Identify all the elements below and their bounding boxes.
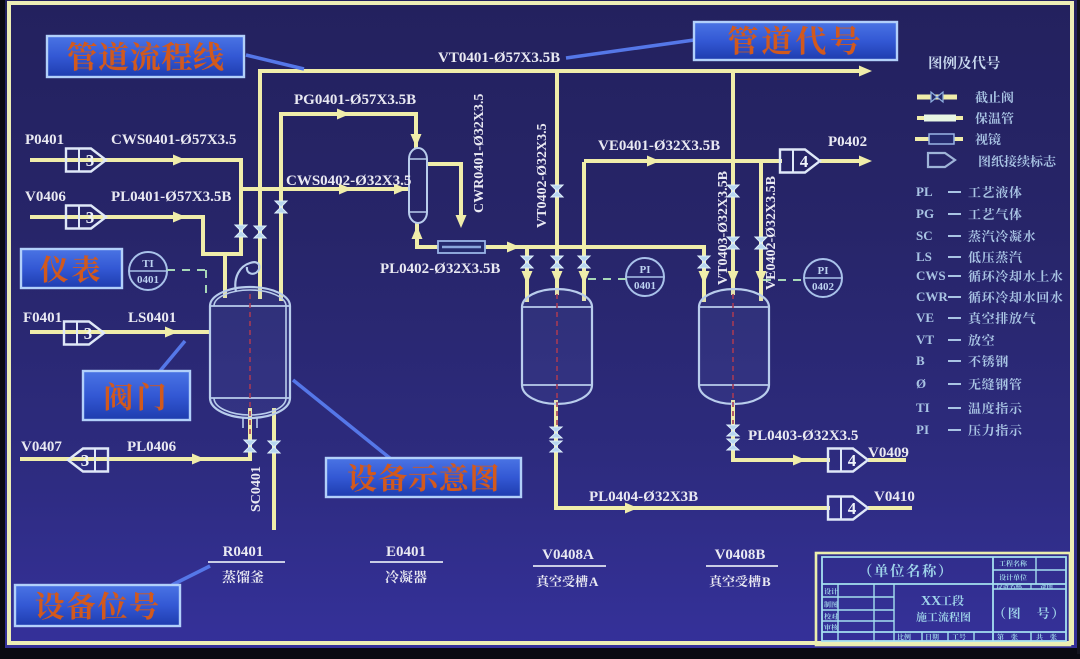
leader from label 2 (566, 40, 694, 58)
valve on PL0402 drop B (698, 256, 710, 262)
title block grid (816, 553, 1070, 645)
svg-text:3: 3 (86, 151, 95, 170)
title block 施工流程图 (916, 612, 970, 622)
pipe CWR0401 drop (459, 162, 463, 222)
leader to pipe from label 1 (246, 55, 304, 69)
svg-text:V0410: V0410 (874, 489, 915, 505)
legend label 图纸接续标志 (979, 155, 1055, 167)
instrument PI0401 bubble (626, 258, 664, 296)
name V0408B (710, 575, 761, 587)
connector flag V0409 (828, 449, 868, 472)
svg-text:PI: PI (916, 422, 929, 437)
pipe PL0406 horizontal (20, 457, 252, 461)
text VE0402 vertical (764, 176, 779, 290)
pipe PG0401 drop to E0401 (414, 114, 418, 148)
legend symbol 视镜 (915, 137, 963, 141)
underline R0401 (208, 561, 285, 563)
valve on VT0402 riser lower (551, 256, 563, 262)
svg-text:B: B (916, 353, 925, 368)
svg-text:V0407: V0407 (21, 439, 62, 455)
arrow PL0402 (507, 242, 520, 253)
svg-text:4: 4 (848, 451, 857, 470)
pipe VT0402 riser to V0408A (555, 71, 559, 295)
svg-text:PL0402-Ø32X3.5B: PL0402-Ø32X3.5B (380, 261, 500, 277)
condenser E0401 welds (409, 158, 427, 160)
arrow CWR0401 end (456, 215, 467, 228)
pipe R0401 neck stem (223, 254, 227, 298)
svg-text:PL0406: PL0406 (127, 439, 177, 455)
valve on VT0401 riser (254, 226, 266, 232)
pipe PL0402 horizontal (415, 245, 706, 249)
black bottom edge strip (0, 648, 1080, 654)
leader from label 阀门 (160, 341, 185, 371)
label box 设备示意图 (326, 458, 521, 497)
arrow into vessel at x=761 (756, 271, 767, 284)
svg-text:VT0403-Ø32X3.5B: VT0403-Ø32X3.5B (716, 171, 731, 285)
legend title 图例及代号 (929, 56, 1000, 70)
legend label 截止阀 (975, 91, 1013, 103)
instrument line TI0401 (167, 269, 206, 271)
svg-text:PG0401-Ø57X3.5B: PG0401-Ø57X3.5B (294, 92, 416, 108)
svg-text:VT0402-Ø32X3.5: VT0402-Ø32X3.5 (535, 123, 550, 228)
valve on V0408B outlet a (727, 425, 739, 431)
arrow into vessel at x=704 (699, 271, 710, 284)
svg-text:PG: PG (916, 206, 934, 221)
pipe PL0401 drop (201, 215, 205, 254)
vessel R0401 weld top (210, 305, 290, 307)
instrument line PI0401 (588, 278, 626, 280)
vessel R0401 weld bottom (210, 397, 290, 399)
svg-text:SC: SC (916, 228, 933, 243)
valve on SC0401 line (268, 441, 280, 447)
arrow into vessel at x=584 (579, 271, 590, 284)
text VT0403 vertical (716, 171, 731, 285)
svg-text:B: B (762, 574, 771, 589)
vessel V0408B centerline (732, 294, 734, 424)
instrument TI0401 bubble (129, 252, 167, 290)
svg-text:3: 3 (84, 324, 93, 343)
pipe PL0401 horizontal (30, 215, 205, 219)
text VT0402 vertical (535, 123, 550, 228)
svg-text:F0401: F0401 (23, 310, 62, 326)
svg-text:PI: PI (818, 265, 829, 277)
svg-text:3: 3 (81, 451, 90, 470)
svg-text:0402: 0402 (812, 281, 835, 293)
svg-text:4: 4 (848, 499, 857, 518)
leader from label 设备位号 (172, 566, 210, 585)
svg-text:CWS0401-Ø57X3.5: CWS0401-Ø57X3.5 (111, 132, 236, 148)
arrow CWS0402 into E0401 (394, 184, 407, 195)
pipe VE0401 after flag (820, 159, 866, 163)
connector flag F0401 (64, 322, 104, 345)
legend label 保温管 (975, 112, 1013, 124)
connector flag V0406 (66, 206, 106, 229)
arrow PG0401 (337, 109, 350, 120)
svg-text:VT: VT (916, 332, 934, 347)
connector flag V0407 (68, 449, 108, 472)
svg-text:PL0404-Ø32X3B: PL0404-Ø32X3B (589, 489, 698, 505)
title block 单位名称 (867, 564, 943, 578)
pipe VT0401 riser from R0401 (258, 69, 262, 299)
svg-text:PL0401-Ø57X3.5B: PL0401-Ø57X3.5B (111, 189, 231, 205)
vessel V0408A shell (522, 289, 592, 404)
legend symbol 图纸接续标志 (928, 153, 955, 167)
arrow CWS0402 (339, 184, 352, 195)
pipe CWS0402 horizontal (242, 187, 408, 191)
svg-text:R0401: R0401 (223, 544, 264, 560)
vessel V0408B shell (699, 289, 769, 404)
svg-text:XX: XX (921, 594, 941, 609)
vessel R0401 centerline (249, 294, 251, 438)
connector flag V0410 (828, 497, 868, 520)
svg-text:PI: PI (640, 264, 651, 276)
pipe PL0404 horizontal (554, 506, 830, 510)
condenser E0401 shell (409, 148, 427, 223)
label box 管道代号 (694, 22, 897, 60)
name E0401 (385, 570, 426, 583)
label box 阀门 (83, 371, 190, 420)
svg-text:CWR0401-Ø32X3.5: CWR0401-Ø32X3.5 (472, 94, 487, 213)
vessel V0408B weld bottom (699, 384, 769, 386)
arrow LS0401 (165, 327, 178, 338)
pipe CWS0401 horizontal (30, 158, 243, 162)
vessel V0408A weld top (522, 306, 592, 308)
black right edge sliver (1077, 0, 1080, 654)
valve on V0408B outlet b (727, 439, 739, 445)
pipe V0408B bottom outlet (731, 400, 735, 462)
pipe PL0403 after flag (868, 458, 906, 462)
svg-text:Ø: Ø (916, 376, 926, 391)
svg-text:VE0402-Ø32X3.5B: VE0402-Ø32X3.5B (764, 176, 779, 290)
pipe R0401 bottom outlet (248, 408, 252, 461)
arrow into vessel at x=557 (552, 271, 563, 284)
legend symbol 保温管 (917, 116, 963, 120)
pipe PL0403 horizontal (731, 458, 830, 462)
arrow into vessel at x=733 (728, 271, 739, 284)
valve on VT0402 riser upper (551, 185, 563, 191)
arrow PL0406 (192, 454, 205, 465)
valve on R0401 outlet (244, 440, 256, 446)
svg-text:3: 3 (86, 208, 95, 227)
svg-text:V0408B: V0408B (715, 547, 766, 563)
pipe drop PL0402 to V0408A (525, 247, 529, 302)
svg-text:V0409: V0409 (868, 445, 909, 461)
valve on VT0403 riser lower (727, 237, 739, 243)
pipe PG0401 horizontal (281, 112, 418, 116)
underline V0408A (533, 565, 606, 567)
vessel V0408A weld bottom (522, 384, 592, 386)
valve on PG0401 leg (275, 201, 287, 207)
pipe VT0403 riser to V0408B (731, 71, 735, 295)
svg-text:CWS: CWS (916, 268, 946, 283)
pipe PL0404 after flag (868, 506, 912, 510)
pipe CWS0401 drop (239, 158, 243, 254)
pipe SC0401 drop (272, 408, 276, 530)
arrow PL0404 (625, 503, 638, 514)
vessel R0401 outer shell (210, 287, 290, 418)
vessel V0408B weld top (699, 306, 769, 308)
svg-text:PL0403-Ø32X3.5: PL0403-Ø32X3.5 (748, 428, 858, 444)
pipe E0401 bottom outlet (415, 222, 419, 247)
svg-text:P0402: P0402 (828, 134, 867, 150)
pipe VE0402 leg to V0408B (759, 161, 763, 301)
svg-text:LS0401: LS0401 (128, 310, 176, 326)
svg-text:TI: TI (142, 258, 154, 270)
legend symbol 截止阀 (917, 95, 957, 100)
pipe VE0401 horizontal (584, 159, 782, 163)
label box 设备位号 (15, 585, 180, 626)
svg-text:CWR: CWR (916, 289, 948, 304)
pipe VT0401 top header (260, 69, 866, 73)
pipe VE leg from V0408A (582, 162, 586, 301)
arrow up into E0401 bottom (412, 226, 423, 239)
arrow VE0401 (647, 156, 660, 167)
svg-text:P0401: P0401 (25, 132, 64, 148)
svg-text:VT0401-Ø57X3.5B: VT0401-Ø57X3.5B (438, 50, 560, 66)
arrow into E0401 top (411, 134, 422, 147)
underline V0408B (706, 565, 778, 567)
legend label 视镜 (975, 133, 1001, 145)
leader from label 设备示意图 (293, 380, 391, 459)
black left edge strip (0, 0, 5, 654)
arrow PL0403 (793, 455, 806, 466)
label box 仪表 (21, 249, 122, 288)
pipe PG0401 leg to R0401 (279, 112, 283, 301)
arrow CWS0401 (173, 155, 186, 166)
text SC0401 vertical (249, 466, 264, 512)
svg-text:4: 4 (800, 152, 809, 171)
name R0401 (222, 570, 263, 583)
svg-text:PL: PL (916, 184, 933, 199)
svg-text:0401: 0401 (634, 280, 656, 292)
valve on VT0403 riser upper (727, 185, 739, 191)
arrow into vessel at x=527 (522, 271, 533, 284)
connector flag P0402 (780, 150, 820, 173)
pipe CWR0401 from E0401 side (427, 162, 463, 166)
title block 图号 (1001, 607, 1056, 619)
connector flag P0401 (66, 149, 106, 172)
pipe drop PL0402 to V0408B (702, 245, 706, 302)
arrow VT0401 end (859, 66, 872, 77)
svg-text:E0401: E0401 (386, 544, 426, 560)
title block small texts (999, 560, 1027, 567)
svg-text:V0406: V0406 (25, 189, 66, 205)
vessel R0401 swan neck vent (235, 262, 259, 292)
instrument PI0402 bubble (804, 259, 842, 297)
arrow VE0401 end (859, 156, 872, 167)
underline E0401 (370, 561, 443, 563)
valve on CWS0401 drop (235, 225, 247, 231)
valve on V0408A outlet a (550, 427, 562, 433)
valve on VE0402 leg B (755, 237, 767, 243)
svg-text:TI: TI (916, 400, 930, 415)
text CWR0401 vertical (472, 94, 487, 213)
valve on VE leg A (578, 256, 590, 262)
svg-text:V0408A: V0408A (542, 547, 594, 563)
svg-text:A: A (589, 574, 599, 589)
svg-text:VE: VE (916, 310, 934, 325)
vessel R0401 bottom nozzle marks (242, 418, 244, 428)
svg-text:0401: 0401 (137, 274, 159, 286)
svg-text:VE0401-Ø32X3.5B: VE0401-Ø32X3.5B (598, 138, 720, 154)
pipe V0408A bottom outlet (554, 400, 558, 510)
label box 管道流程线 (47, 36, 244, 77)
sight glass on PL0402 (438, 241, 485, 253)
svg-text:SC0401: SC0401 (249, 466, 264, 512)
pipe LS0401 horizontal (30, 330, 210, 334)
arrow PL0401 (173, 212, 186, 223)
vessel V0408A centerline (556, 294, 558, 426)
name V0408A (537, 575, 588, 587)
svg-text:CWS0402-Ø32X3.5: CWS0402-Ø32X3.5 (286, 173, 411, 189)
valve on PL0402 drop A (521, 256, 533, 262)
instrument line PI0402 (763, 279, 804, 281)
valve on V0408A outlet b (550, 441, 562, 447)
pipe jog into R0401 neck (201, 252, 243, 256)
vessel R0401 inner shell (214, 290, 286, 415)
svg-text:LS: LS (916, 249, 932, 264)
